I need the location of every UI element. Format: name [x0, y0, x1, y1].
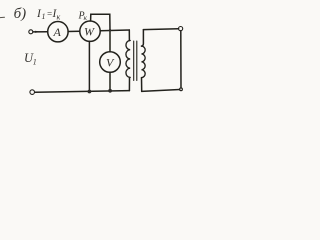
junction dot top: [109, 29, 111, 31]
ammeter A: [48, 22, 68, 42]
svg-text:б): б): [14, 6, 27, 22]
edge artifact line: [0, 16, 5, 18]
transformer secondary coil: [142, 46, 146, 78]
junction dot W lead: [88, 90, 92, 94]
svg-text:1: 1: [42, 12, 46, 21]
voltmeter bottom lead: [109, 72, 111, 91]
wire secondary bottom: [142, 90, 180, 92]
terminal T3 (top right): [179, 27, 183, 31]
svg-text:к: к: [57, 12, 61, 21]
junction dot V lead: [108, 89, 112, 93]
corner junction circle: [180, 88, 183, 91]
secondary top lead: [142, 30, 144, 46]
wire secondary top: [143, 28, 178, 31]
wire W to corner: [100, 29, 129, 32]
svg-text:W: W: [84, 25, 95, 39]
secondary bottom lead: [141, 78, 143, 92]
terminal T1 (top left): [29, 30, 33, 34]
transformer primary coil: [126, 41, 130, 78]
wattmeter current loop: [91, 14, 110, 30]
wire down to primary: [128, 30, 130, 41]
svg-text:к: к: [84, 13, 88, 22]
voltmeter top lead: [109, 30, 111, 51]
wire right vertical: [180, 31, 182, 88]
svg-text:A: A: [53, 25, 62, 39]
wire T1 to A: [33, 31, 48, 33]
wattmeter W: [80, 21, 100, 41]
wattmeter voltage lead: [88, 41, 90, 91]
transformer core: [133, 41, 135, 81]
svg-text:1: 1: [33, 58, 37, 67]
bottom wire: [35, 91, 129, 93]
terminal T2 (bottom left): [30, 90, 35, 95]
voltmeter V: [100, 52, 121, 73]
wire A to W: [68, 30, 80, 32]
current direction arrow: [35, 31, 40, 33]
primary bottom lead: [128, 77, 130, 90]
